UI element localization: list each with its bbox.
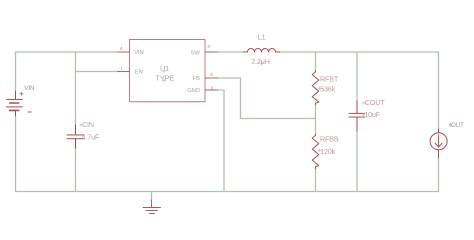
wire: IOUT bottom to rail	[438, 158, 440, 192]
origin cross 120k	[318, 149, 321, 152]
U1 pin stub VIN pin 4	[118, 51, 130, 53]
wire: SW pin to L1	[218, 51, 244, 53]
U1 pin stub EN pin 1	[118, 71, 130, 73]
svg-text:IOUT: IOUT	[449, 122, 464, 129]
wire: battery bottom lead to rail	[15, 116, 17, 192]
svg-text:COUT: COUT	[365, 98, 386, 107]
svg-text:L1: L1	[258, 32, 266, 41]
svg-text:FB: FB	[193, 76, 200, 82]
wire: CIN bottom to ground rail	[75, 148, 77, 192]
ground symbol	[143, 200, 161, 214]
inductor L1	[244, 49, 280, 53]
svg-text:RFBT: RFBT	[320, 75, 339, 84]
origin cross 2.2uH	[260, 61, 263, 64]
capacitor COUT	[349, 101, 365, 131]
wire: RFBB bottom to rail	[315, 169, 317, 192]
U1 pin stub GND pin 2	[205, 89, 218, 91]
battery VIN	[7, 91, 32, 116]
wire: ground symbol stem upper	[151, 192, 153, 202]
svg-text:GND: GND	[187, 88, 200, 94]
U1 pin stub FB pin 5	[205, 77, 218, 79]
origin cross IOUT	[449, 124, 451, 127]
svg-text:10uF: 10uF	[364, 110, 381, 119]
wire: divider chain top	[315, 52, 317, 71]
svg-text:TYPE: TYPE	[155, 73, 174, 82]
capacitor CIN	[67, 125, 84, 148]
origin cross TYPE	[163, 79, 166, 82]
wire: VIN net from battery to U1 VIN pin	[16, 52, 118, 91]
svg-text:536k: 536k	[320, 85, 336, 94]
svg-text:120k: 120k	[320, 147, 336, 156]
wire: EN net	[76, 71, 118, 73]
svg-text:CIN: CIN	[82, 120, 94, 129]
svg-text:2.2μH: 2.2μH	[251, 57, 270, 66]
svg-text:U1: U1	[160, 64, 169, 73]
resistor RFBT	[312, 71, 319, 105]
origin cross 10uF	[362, 113, 365, 116]
wire: right vertical down to IOUT top	[438, 52, 440, 129]
origin cross 536k	[318, 87, 321, 90]
svg-text:1: 1	[120, 66, 123, 72]
svg-text:VIN: VIN	[134, 50, 144, 56]
svg-text:2: 2	[211, 85, 214, 91]
svg-text:SW: SW	[191, 51, 201, 57]
svg-text:4: 4	[120, 46, 123, 52]
current source IOUT	[430, 129, 447, 158]
svg-text:EN: EN	[135, 70, 143, 76]
wire: COUT bottom to rail	[356, 131, 358, 192]
wire: between RFBT and RFBB	[315, 105, 317, 135]
wire: L1 to output node and right edge	[280, 51, 439, 53]
wire: GND pin net down to rail	[218, 90, 225, 192]
wire: FB net to divider junction	[218, 78, 316, 119]
svg-text:RFBB: RFBB	[320, 135, 339, 144]
svg-text:4.7uF: 4.7uF	[82, 133, 100, 142]
svg-text:5: 5	[210, 72, 213, 78]
svg-text:VIN: VIN	[24, 85, 35, 92]
origin cross CIN	[80, 124, 83, 127]
origin cross COUT	[362, 101, 365, 104]
origin cross U1	[163, 69, 166, 72]
svg-text:3: 3	[207, 44, 210, 50]
IC U1 box	[130, 40, 206, 102]
wire: bottom ground rail	[16, 191, 439, 193]
wire: COUT vertical top	[356, 52, 358, 101]
resistor RFBB	[312, 134, 319, 169]
U1 pin stub SW pin 3	[205, 51, 218, 53]
wire: branch at x=75.5 down to CIN top	[75, 52, 77, 126]
